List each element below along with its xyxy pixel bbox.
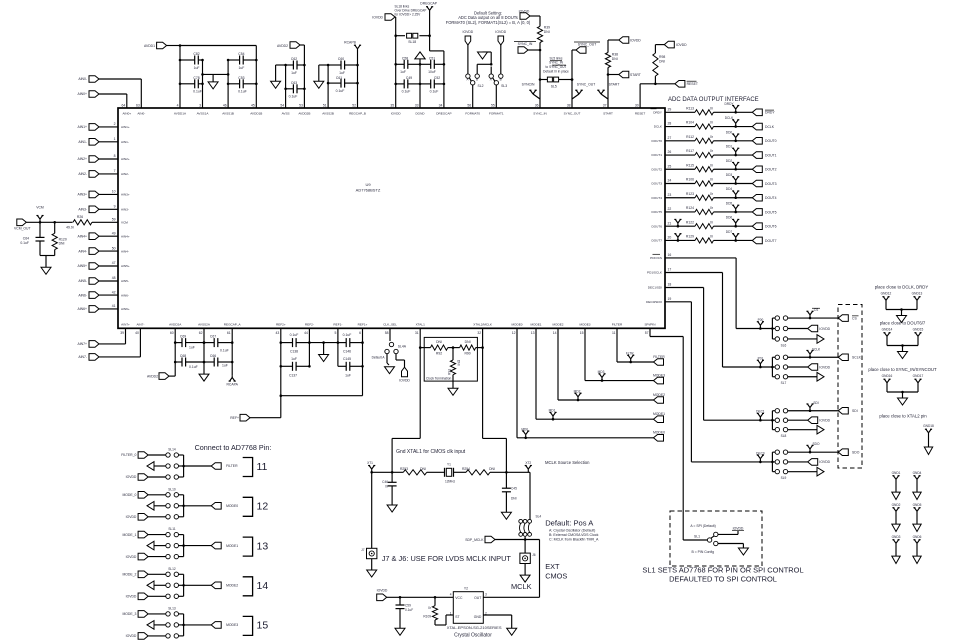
svg-text:37: 37 xyxy=(603,104,607,108)
resistor R124 and connector DOUT5 row xyxy=(665,201,777,215)
svg-text:DNI: DNI xyxy=(59,242,65,246)
svg-text:REF1-: REF1- xyxy=(333,323,342,327)
svg-text:49: 49 xyxy=(112,231,116,235)
svg-text:Default: Pos A: Default: Pos A xyxy=(545,518,594,527)
svg-text:SL12: SL12 xyxy=(168,567,176,571)
connector MODE3 xyxy=(653,373,665,384)
connector AVDD1 xyxy=(144,42,181,49)
svg-text:42: 42 xyxy=(112,290,116,294)
svg-text:IOVDD: IOVDD xyxy=(372,15,383,19)
capacitor C66 1uF xyxy=(204,354,234,368)
svg-text:AVSS2A: AVSS2A xyxy=(198,323,211,327)
ground pads GND14 GND15 xyxy=(880,321,926,359)
svg-text:DOUT3: DOUT3 xyxy=(652,182,663,186)
svg-text:IOVDD: IOVDD xyxy=(399,378,410,382)
svg-text:48: 48 xyxy=(112,276,116,280)
svg-text:AVDD2B: AVDD2B xyxy=(298,112,310,116)
svg-text:44: 44 xyxy=(304,331,308,335)
resistor R115 and connector DOUT2 row xyxy=(665,159,777,173)
svg-text:32: 32 xyxy=(477,331,481,335)
oscillator Y2 box xyxy=(450,587,487,624)
ground for SL2/SL3 xyxy=(477,52,492,74)
note Connect to AD7768 Pin xyxy=(195,443,272,452)
svg-text:C78: C78 xyxy=(193,76,199,80)
svg-text:FORMAT0: FORMAT0 xyxy=(465,112,480,116)
connector FILTER xyxy=(653,355,665,366)
svg-text:38: 38 xyxy=(567,104,571,108)
test point SYNC_OUT tp xyxy=(572,82,595,99)
svg-text:MODE1: MODE1 xyxy=(653,412,665,416)
svg-text:43: 43 xyxy=(276,331,280,335)
svg-text:14: 14 xyxy=(553,331,557,335)
svg-text:R124: R124 xyxy=(686,206,694,210)
svg-text:AIN2+: AIN2+ xyxy=(77,157,87,161)
svg-text:DCLK: DCLK xyxy=(654,125,663,129)
svg-text:AIN7-: AIN7- xyxy=(136,323,144,327)
svg-text:C53: C53 xyxy=(238,76,244,80)
svg-text:52: 52 xyxy=(352,104,356,108)
jumper SL4A xyxy=(372,328,407,365)
svg-text:61: 61 xyxy=(227,331,231,335)
wire AVSS2B pin51 xyxy=(327,65,329,108)
svg-text:GND1: GND1 xyxy=(892,471,901,475)
IC right edge pin numbers and labels xyxy=(646,108,671,305)
svg-text:AIN4+: AIN4+ xyxy=(77,234,87,238)
svg-text:Y1: Y1 xyxy=(447,462,451,466)
svg-text:SL5 links: SL5 links xyxy=(550,56,563,60)
svg-text:R123: R123 xyxy=(686,192,694,196)
svg-text:50: 50 xyxy=(112,246,116,250)
svg-text:SL13: SL13 xyxy=(168,606,176,610)
svg-text:Default A: Default A xyxy=(372,355,386,359)
svg-text:11: 11 xyxy=(257,461,268,473)
resistor R254 DNI xyxy=(462,467,530,475)
svg-text:Crystal Oscillator: Crystal Oscillator xyxy=(454,633,492,639)
svg-text:R113: R113 xyxy=(686,107,694,111)
svg-text:FILTER: FILTER xyxy=(226,464,238,468)
svg-text:DEC0/SDO: DEC0/SDO xyxy=(646,300,662,304)
svg-text:SL3: SL3 xyxy=(501,84,507,88)
svg-text:DEC0: DEC0 xyxy=(756,451,765,455)
svg-text:IOVDD: IOVDD xyxy=(630,38,641,42)
svg-text:IOVDD: IOVDD xyxy=(819,365,830,369)
svg-text:GND15: GND15 xyxy=(913,328,924,332)
svg-text:DOUT5: DOUT5 xyxy=(652,210,663,214)
note default setting xyxy=(446,11,531,25)
svg-text:DGND: DGND xyxy=(415,112,425,116)
svg-text:AIN3-: AIN3- xyxy=(78,208,87,212)
wire Y2 OUT to MCLK line xyxy=(483,540,539,598)
svg-text:62: 62 xyxy=(199,331,203,335)
svg-text:SPI/PIN: SPI/PIN xyxy=(644,323,655,327)
svg-text:AIN3+: AIN3+ xyxy=(121,193,130,197)
svg-text:54: 54 xyxy=(280,104,284,108)
wire REF1- pin5 xyxy=(337,328,340,366)
svg-text:29: 29 xyxy=(668,108,672,112)
ground AVSS2B group xyxy=(314,65,328,88)
capacitor C78 0.1uF xyxy=(179,76,204,94)
test point RCAPB xyxy=(344,41,361,53)
svg-text:DOUT0: DOUT0 xyxy=(765,139,777,143)
svg-text:AIN6+: AIN6+ xyxy=(121,307,130,311)
power IOVDD for SL2 xyxy=(463,30,474,74)
svg-text:C51: C51 xyxy=(429,56,435,60)
svg-text:A: A xyxy=(467,78,469,82)
svg-text:SL8: SL8 xyxy=(781,434,787,438)
connector MODE2 xyxy=(653,393,665,404)
connector VCM_OUT xyxy=(14,219,73,231)
wire REGCAP_B pin52 xyxy=(357,52,359,108)
ground AVSS2A xyxy=(199,374,209,381)
power DGND arrow xyxy=(415,52,425,108)
capacitor C145 1uF xyxy=(338,357,364,377)
svg-text:55: 55 xyxy=(491,104,495,108)
svg-text:PD1/SCLK: PD1/SCLK xyxy=(647,271,663,275)
svg-text:MODE_0: MODE_0 xyxy=(122,493,136,497)
capacitor C45 DNI xyxy=(502,472,517,512)
connector SDP_MCLK xyxy=(465,536,539,543)
svg-text:J7: J7 xyxy=(361,548,365,552)
svg-text:C58: C58 xyxy=(402,56,408,60)
svg-text:13: 13 xyxy=(257,540,269,552)
svg-text:51: 51 xyxy=(323,104,327,108)
svg-text:CS: CS xyxy=(814,308,818,312)
svg-text:AVDD2: AVDD2 xyxy=(147,374,158,378)
svg-text:MODE0: MODE0 xyxy=(653,431,665,435)
wire DEC0/SDO to SL9 xyxy=(665,302,772,462)
svg-text:AIN0-: AIN0- xyxy=(137,112,145,116)
svg-text:9: 9 xyxy=(114,205,116,209)
IC left edge pin numbers and labels xyxy=(112,122,130,311)
svg-text:SL14: SL14 xyxy=(168,448,176,452)
svg-text:49.9r: 49.9r xyxy=(66,226,75,230)
svg-text:41: 41 xyxy=(112,304,116,308)
wire IOVDD pin35 xyxy=(394,17,397,108)
svg-text:DD4: DD4 xyxy=(726,187,733,191)
wire REF2- pin44 xyxy=(308,328,310,366)
svg-text:B = PIN Config: B = PIN Config xyxy=(692,550,715,554)
wire REGCAP_A pin61 xyxy=(231,328,233,375)
svg-text:R254: R254 xyxy=(462,467,470,471)
svg-text:27: 27 xyxy=(668,136,672,140)
svg-text:DOUT7: DOUT7 xyxy=(652,239,663,243)
resistor R120 DNI xyxy=(52,221,67,256)
svg-text:IOVDD: IOVDD xyxy=(377,588,388,592)
svg-text:0.1uF: 0.1uF xyxy=(20,241,29,245)
svg-text:C63: C63 xyxy=(291,81,297,85)
svg-text:DNI: DNI xyxy=(612,57,618,61)
svg-text:MODE_2: MODE_2 xyxy=(122,573,136,577)
connector AIN7+ xyxy=(77,328,125,347)
svg-text:58: 58 xyxy=(385,331,389,335)
svg-text:AIN6+: AIN6+ xyxy=(77,307,87,311)
capacitor C60 1uF xyxy=(327,57,359,75)
svg-text:SL4A: SL4A xyxy=(398,345,407,349)
svg-text:5: 5 xyxy=(335,331,337,335)
svg-text:AIN3+: AIN3+ xyxy=(77,193,87,197)
svg-text:R106: R106 xyxy=(686,178,694,182)
capacitor C138 0.1uF/1uF top xyxy=(281,333,311,353)
svg-text:VCM: VCM xyxy=(36,206,44,210)
capacitor C69 1uF xyxy=(175,335,205,350)
svg-text:15: 15 xyxy=(257,620,269,632)
svg-text:AVSS: AVSS xyxy=(282,112,290,116)
power IOVDD RESET xyxy=(655,41,687,53)
connector AIN0- xyxy=(78,76,141,108)
svg-text:ADC DATA OUTPUT INTERFACE: ADC DATA OUTPUT INTERFACE xyxy=(668,97,759,103)
svg-text:IOVDD: IOVDD xyxy=(126,595,137,599)
svg-text:IOVDD: IOVDD xyxy=(676,43,687,47)
svg-text:DD3: DD3 xyxy=(726,173,733,177)
svg-text:DOUT1: DOUT1 xyxy=(765,153,777,157)
svg-text:IOVDD: IOVDD xyxy=(819,460,830,464)
power IOVDD SYNC_IN xyxy=(519,10,540,27)
svg-text:SDI: SDI xyxy=(852,409,858,413)
svg-text:35: 35 xyxy=(390,104,394,108)
svg-text:SYNCIN: SYNCIN xyxy=(522,82,535,86)
wire MODE0 route with test point MD0 xyxy=(517,328,654,439)
svg-text:AIN6-: AIN6- xyxy=(78,293,87,297)
svg-text:XTAL1: XTAL1 xyxy=(416,323,426,327)
svg-text:10uF: 10uF xyxy=(428,70,436,74)
svg-text:MODE3: MODE3 xyxy=(653,373,665,377)
svg-text:SL9: SL9 xyxy=(781,476,787,480)
svg-text:CMOS: CMOS xyxy=(545,572,567,581)
svg-text:AIN2-: AIN2- xyxy=(121,172,129,176)
svg-text:0.1uF: 0.1uF xyxy=(290,333,299,337)
svg-text:Default 0r in place: Default 0r in place xyxy=(543,70,569,74)
svg-text:24: 24 xyxy=(668,179,672,183)
svg-text:MD1: MD1 xyxy=(549,409,556,413)
wire DEC1/SDI to SL8 xyxy=(665,288,772,421)
svg-text:1uF: 1uF xyxy=(222,364,228,368)
wire REF2+ pin43 xyxy=(280,328,283,395)
note MCLK xyxy=(511,582,532,591)
svg-text:REF1+: REF1+ xyxy=(358,323,368,327)
svg-text:C145: C145 xyxy=(343,357,351,361)
svg-text:J7 & J6: USE FOR LVDS MCLK INP: J7 & J6: USE FOR LVDS MCLK INPUT xyxy=(382,554,512,563)
svg-text:SYNC_OUT: SYNC_OUT xyxy=(577,82,595,86)
svg-text:XTAL2/MCLK: XTAL2/MCLK xyxy=(473,323,493,327)
resistor R112 and connector DOUT0 row xyxy=(665,130,777,144)
svg-text:GND2: GND2 xyxy=(892,503,901,507)
svg-text:MD2: MD2 xyxy=(574,390,581,394)
svg-text:DREGCAP: DREGCAP xyxy=(436,112,451,116)
svg-text:R98: R98 xyxy=(659,55,665,59)
svg-text:59: 59 xyxy=(112,218,116,222)
svg-text:XTAL-EPSON-SG-210SERIES: XTAL-EPSON-SG-210SERIES xyxy=(447,625,502,630)
svg-text:DNI: DNI xyxy=(420,467,426,471)
svg-text:IOVDD: IOVDD xyxy=(733,526,744,530)
ground C46 xyxy=(387,505,397,512)
svg-text:AIN1-: AIN1- xyxy=(78,140,87,144)
svg-text:GND12: GND12 xyxy=(881,292,892,296)
svg-text:0.1uF: 0.1uF xyxy=(189,365,198,369)
svg-text:39: 39 xyxy=(120,331,124,335)
svg-text:33: 33 xyxy=(415,104,419,108)
capacitor C137 1uF bottom xyxy=(281,357,311,377)
svg-text:MCLK: MCLK xyxy=(511,582,532,591)
svg-text:PDO/CS: PDO/CS xyxy=(650,256,662,260)
power IOVDD for SL3 xyxy=(495,30,506,74)
note MCLK source xyxy=(545,460,590,465)
power IOVDD SL4A xyxy=(396,354,410,383)
svg-text:DNI: DNI xyxy=(511,497,517,501)
svg-text:C137: C137 xyxy=(289,373,297,377)
svg-text:SYNC_IN: SYNC_IN xyxy=(549,61,564,65)
jumper SL18 xyxy=(396,33,430,44)
ground pads GND16 GND17 xyxy=(868,367,937,405)
svg-text:AVSS2B: AVSS2B xyxy=(322,112,334,116)
svg-text:0.1uF: 0.1uF xyxy=(402,90,411,94)
svg-text:SCLK: SCLK xyxy=(852,356,862,360)
svg-text:DOUT4: DOUT4 xyxy=(652,196,663,200)
svg-text:GND4: GND4 xyxy=(913,471,922,475)
svg-text:DD5: DD5 xyxy=(726,201,733,205)
connector SYNC_OUT xyxy=(571,42,600,108)
svg-text:AIN1+: AIN1+ xyxy=(77,125,87,129)
svg-text:MODE2: MODE2 xyxy=(653,393,665,397)
svg-text:11: 11 xyxy=(612,331,616,335)
capacitor C146 0.1uF xyxy=(338,333,364,353)
svg-text:53: 53 xyxy=(299,104,303,108)
wire crystal row xyxy=(372,471,404,474)
capacitor C59 0.1uF xyxy=(396,596,414,628)
resistor R253 DNI xyxy=(400,467,427,475)
svg-text:DEC1/SDI: DEC1/SDI xyxy=(648,286,662,290)
svg-text:C46: C46 xyxy=(382,480,388,484)
svg-text:REF2-: REF2- xyxy=(305,323,314,327)
svg-text:FILTER: FILTER xyxy=(612,323,623,327)
svg-text:Clock Termination: Clock Termination xyxy=(426,377,451,381)
svg-text:DRDY: DRDY xyxy=(653,111,662,115)
note Default Pos A xyxy=(545,518,599,541)
svg-text:IOVDD: IOVDD xyxy=(819,327,830,331)
svg-text:0.1uF: 0.1uF xyxy=(289,95,298,99)
svg-text:OUT: OUT xyxy=(474,596,481,600)
test point RCAPA xyxy=(226,375,238,386)
svg-text:1uF: 1uF xyxy=(291,71,297,75)
svg-text:MODE_1: MODE_1 xyxy=(122,533,136,537)
svg-text:SL10: SL10 xyxy=(168,487,176,491)
note SL1 SETS xyxy=(642,566,803,584)
svg-text:1uF: 1uF xyxy=(189,345,195,349)
svg-text:U9: U9 xyxy=(365,182,371,187)
svg-text:IOVDD: IOVDD xyxy=(126,515,137,519)
svg-text:IOVDD: IOVDD xyxy=(126,555,137,559)
svg-text:AIN5+: AIN5+ xyxy=(77,264,87,268)
svg-text:GND13: GND13 xyxy=(912,292,923,296)
svg-text:DNI: DNI xyxy=(544,30,550,34)
svg-text:AIN4+: AIN4+ xyxy=(121,234,130,238)
wire PD1/SCLK to SL7 xyxy=(665,273,772,368)
svg-text:J6: J6 xyxy=(532,553,536,557)
svg-text:FORMAT0 (SL2), FORMAT1(SL2) =: FORMAT0 (SL2), FORMAT1(SL2) = B, A (0, 0… xyxy=(446,20,531,25)
svg-text:SDO: SDO xyxy=(813,442,820,446)
svg-text:DCLK: DCLK xyxy=(725,116,734,120)
svg-text:0.1uF: 0.1uF xyxy=(405,608,413,612)
svg-text:3: 3 xyxy=(485,593,487,597)
svg-text:DCLK: DCLK xyxy=(765,125,775,129)
svg-text:SYNC_OUT: SYNC_OUT xyxy=(578,42,596,46)
svg-text:1uF: 1uF xyxy=(339,71,345,75)
svg-text:SL18: SL18 xyxy=(408,40,416,44)
capacitor C53 0.1uF xyxy=(227,76,258,94)
svg-text:2: 2 xyxy=(114,122,116,126)
svg-text:8: 8 xyxy=(114,154,116,158)
svg-text:14: 14 xyxy=(257,580,269,592)
svg-text:GND5: GND5 xyxy=(913,503,922,507)
connector AVDD2 bottom xyxy=(147,373,175,380)
capacitor C61 0.1uF xyxy=(327,76,359,93)
svg-text:60: 60 xyxy=(170,331,174,335)
svg-text:C61: C61 xyxy=(336,76,342,80)
svg-text:40: 40 xyxy=(135,331,139,335)
note XTAL EPSON xyxy=(447,625,502,630)
resistor R26 49.9r xyxy=(66,215,118,229)
svg-text:R112: R112 xyxy=(686,135,694,139)
svg-text:4: 4 xyxy=(450,593,452,597)
svg-text:R91: R91 xyxy=(448,369,452,375)
svg-text:C62: C62 xyxy=(291,57,297,61)
jumper SL14 FILTER block pin 11 xyxy=(121,448,267,481)
note B = PIN Config xyxy=(692,550,715,554)
ground SL1 xyxy=(718,544,748,556)
svg-text:1uF: 1uF xyxy=(291,357,297,361)
jumper SL13 MODE3 block pin 15 xyxy=(122,606,268,639)
resistor R91 DNI xyxy=(448,348,461,382)
svg-text:16: 16 xyxy=(668,253,672,257)
svg-text:MODE3: MODE3 xyxy=(579,323,590,327)
svg-text:20: 20 xyxy=(668,236,672,240)
resistor R129 and connector DOUT7 row xyxy=(665,230,777,244)
svg-text:SL11: SL11 xyxy=(168,527,175,531)
svg-text:63: 63 xyxy=(136,104,140,108)
jumper SL10 MODE0 block pin 12 xyxy=(122,487,268,520)
svg-text:3: 3 xyxy=(199,104,201,108)
ground J6 xyxy=(520,564,530,583)
svg-text:Gnd XTAL1 for CMOS clk input: Gnd XTAL1 for CMOS clk input xyxy=(396,449,466,455)
svg-text:34: 34 xyxy=(439,104,443,108)
svg-text:AVDD1A: AVDD1A xyxy=(174,112,187,116)
note Gnd XTAL1 xyxy=(396,449,466,455)
svg-text:DNI: DNI xyxy=(436,340,442,344)
connector MODE0 xyxy=(653,431,665,442)
wire REF1+ pin6 xyxy=(362,328,364,395)
resistor R123 and connector DOUT4 row xyxy=(665,187,777,201)
ground C59 xyxy=(395,628,405,635)
wire MODE3 route with test point MD3 xyxy=(585,328,654,382)
connectors AIN1-AIN6 left inputs xyxy=(77,124,118,313)
dashed box SPI connectors xyxy=(838,305,862,469)
svg-text:place close to XTAL2 pin: place close to XTAL2 pin xyxy=(879,414,927,419)
wire FILTER route with test point FLTR xyxy=(617,328,654,363)
svg-text:B: B xyxy=(500,78,502,82)
ground between AVSS1A/AVSS1B xyxy=(201,73,229,89)
svg-text:DRDY: DRDY xyxy=(724,102,734,106)
svg-text:IOVDD: IOVDD xyxy=(819,419,830,423)
test point DREGCAP xyxy=(420,1,438,35)
svg-text:DNI: DNI xyxy=(489,467,495,471)
capacitor C63 0.1uF xyxy=(284,81,305,99)
capacitor C46 0r xyxy=(382,472,396,505)
svg-text:START: START xyxy=(609,82,620,86)
svg-text:36: 36 xyxy=(535,104,539,108)
svg-text:SL7: SL7 xyxy=(781,381,787,385)
svg-text:DNI: DNI xyxy=(659,60,665,64)
svg-text:30: 30 xyxy=(635,104,639,108)
svg-text:DD6: DD6 xyxy=(726,216,733,220)
